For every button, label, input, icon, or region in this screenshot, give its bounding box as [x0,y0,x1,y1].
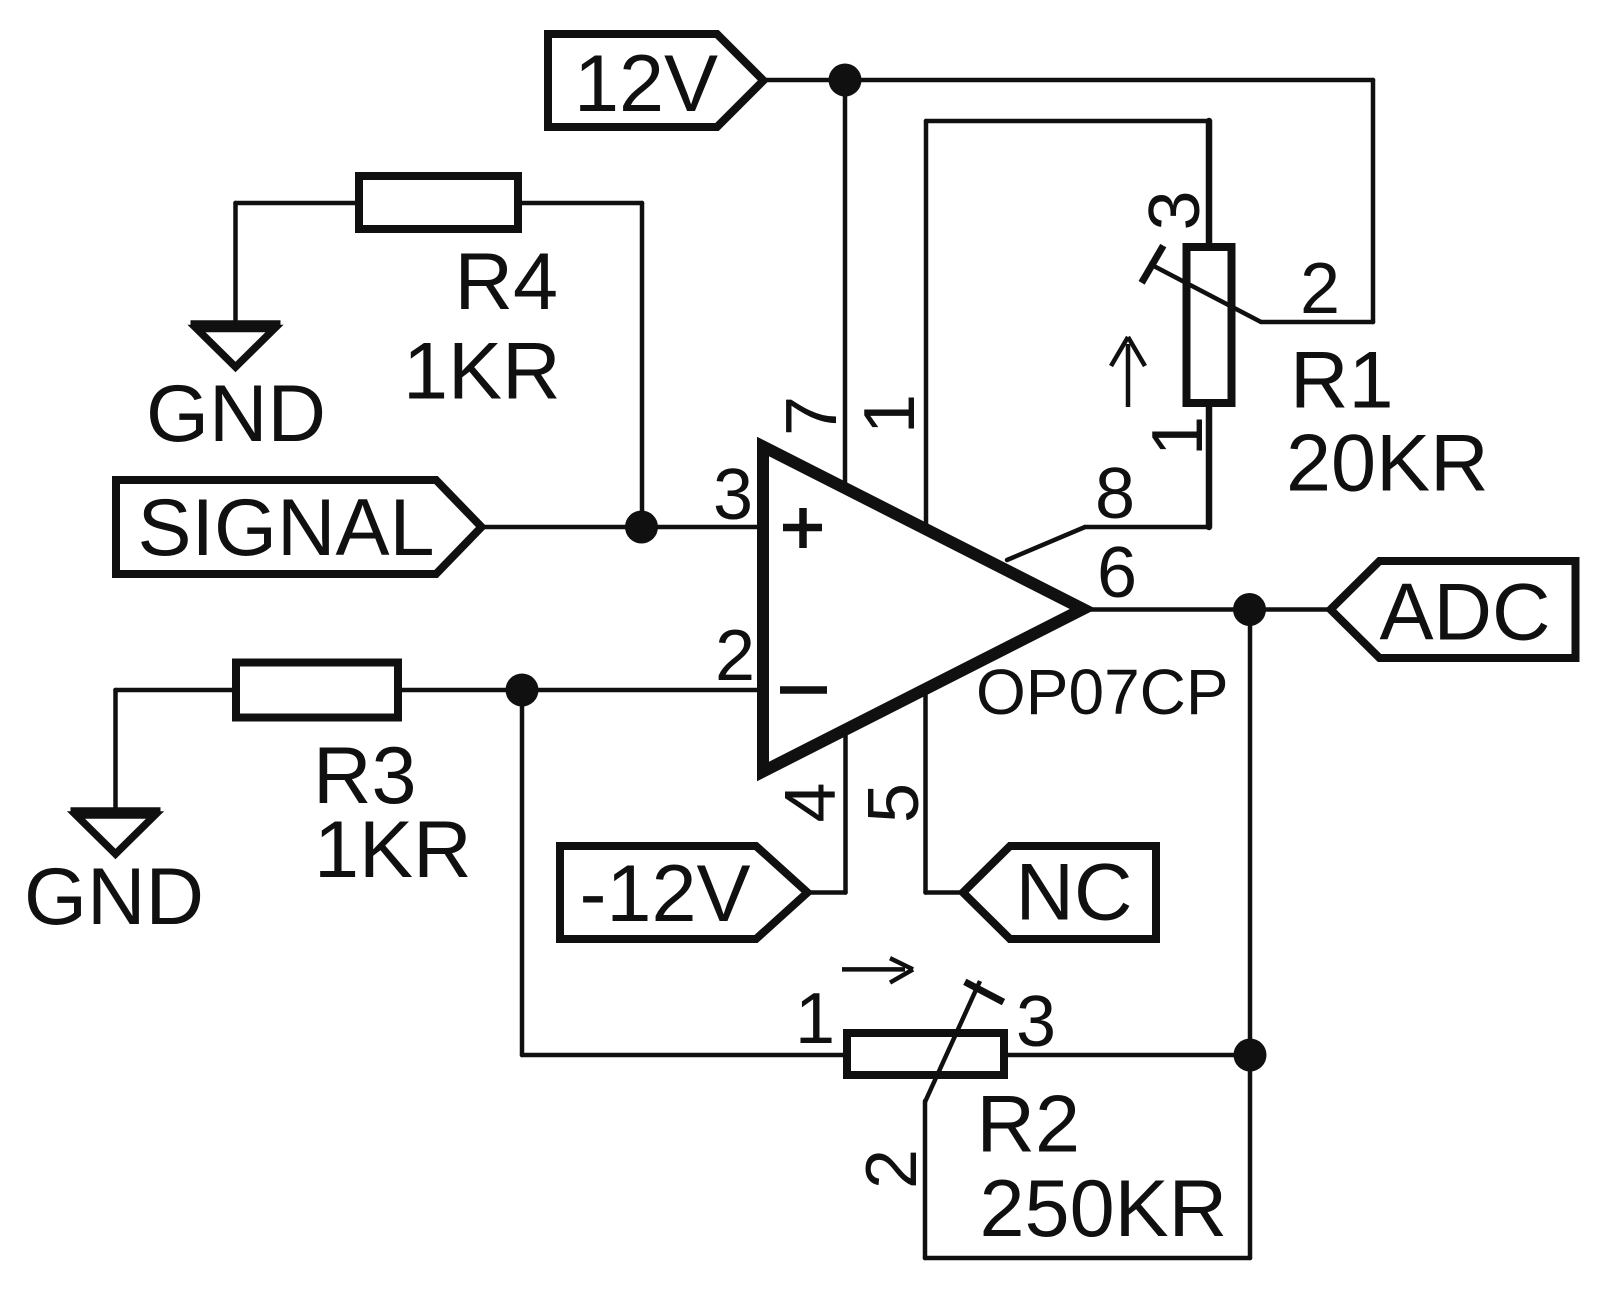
R2 wiper [925,981,980,1102]
svg-text:3: 3 [1016,982,1056,1062]
wire -12V flag to pin 4 [808,890,846,895]
svg-text:OP07CP: OP07CP [976,656,1229,728]
svg-text:1KR: 1KR [403,327,561,417]
R2 direction arrow [842,958,913,982]
power flag -12V [560,846,808,939]
R1 direction arrow [1111,337,1145,407]
svg-text:NC: NC [1016,848,1133,938]
wire R4 right stub [518,201,642,206]
wire pin8 horizontal [1085,525,1209,530]
R1 wiper T-bar [1142,246,1164,283]
svg-text:SIGNAL: SIGNAL [137,483,434,573]
op-amp minus input mark [780,686,827,694]
junction node output [1233,593,1266,626]
wire to R1 wiper [1261,320,1373,325]
wire junction to op-amp pin 2 [522,688,763,693]
resistor R3 body [236,663,398,718]
wire R3 left stub [116,688,237,693]
svg-text:2: 2 [1300,249,1340,329]
wire R2 pin 2 vertical [923,1101,928,1258]
wire R1 pin 1 stub [1206,400,1213,527]
svg-text:R2: R2 [977,1080,1081,1170]
potentiometer R1 body [1187,247,1232,403]
svg-text:1: 1 [1138,416,1218,456]
op-amp plus input mark [783,508,822,548]
svg-text:1: 1 [795,979,835,1059]
wire node to R2 pin 1 [522,1053,845,1058]
wire R2 bottom loop [925,1256,1250,1261]
wire R2 junction down [1248,1055,1253,1258]
svg-text:ADC: ADC [1379,568,1550,658]
wire junction to top-right corner [845,78,1373,83]
wire pin1 to R1 pin3 top loop [926,119,1209,124]
op-amp U1 triangle [763,447,1083,772]
svg-text:-12V: -12V [579,849,750,939]
wire junction to op-amp pin 3 [642,525,764,530]
svg-text:250KR: 250KR [980,1164,1228,1254]
svg-text:3: 3 [1135,190,1215,230]
svg-text:GND: GND [24,852,204,942]
svg-text:GND: GND [146,369,326,459]
svg-text:20KR: 20KR [1286,419,1489,509]
svg-text:1KR: 1KR [314,805,472,895]
power flag 12V [548,34,764,127]
wire op-amp pin 4 [843,726,848,893]
wire op-amp pin 8 diagonal [1007,527,1085,560]
ground symbol top [191,324,281,367]
wire R4 left stub [236,201,360,206]
ground symbol bottom [71,811,161,854]
svg-text:1: 1 [850,394,930,434]
svg-text:R1: R1 [1290,336,1394,426]
svg-text:6: 6 [1097,533,1137,613]
R1 wiper [1149,264,1261,323]
junction node 12V [829,64,862,97]
wire inverting node vertical [520,690,525,1055]
potentiometer R2 body [847,1033,1004,1075]
wire R3 right stub [398,688,522,693]
svg-text:4: 4 [771,782,851,822]
svg-text:12V: 12V [574,39,718,129]
wire output junction down [1248,610,1253,1056]
wire R4 down to GND [233,203,238,321]
svg-text:3: 3 [713,455,753,535]
wire R2 pin 3 to junction [1006,1053,1250,1058]
wire R1 pin 3 stub [1206,121,1213,250]
wire right vertical down [1371,80,1376,322]
flag ADC [1331,561,1576,658]
svg-text:2: 2 [852,1149,932,1189]
junction node non-inverting input [625,511,658,544]
wire R3 down to GND [113,690,118,811]
wire pin 5 to NC flag [926,890,964,895]
svg-text:R4: R4 [455,237,559,327]
wire 12V flag tip to junction [764,78,846,83]
R2 wiper T-bar [965,982,1004,1002]
svg-text:8: 8 [1095,454,1135,534]
wire op-amp pin 1 [924,121,929,529]
svg-text:2: 2 [715,616,755,696]
flag NC [963,846,1156,939]
junction node inverting input [506,674,539,707]
wire SIGNAL to junction [482,525,642,530]
signal flag SIGNAL [116,480,482,574]
junction node R2 [1234,1039,1267,1072]
svg-text:7: 7 [772,396,852,436]
wire op-amp pin 5 [923,685,928,893]
svg-text:5: 5 [854,783,934,823]
wire op-amp pin 7 [843,80,848,489]
resistor R4 body [359,176,518,229]
wire op-amp output to ADC [1083,607,1331,612]
wire R4 vertical to signal node [640,203,645,527]
